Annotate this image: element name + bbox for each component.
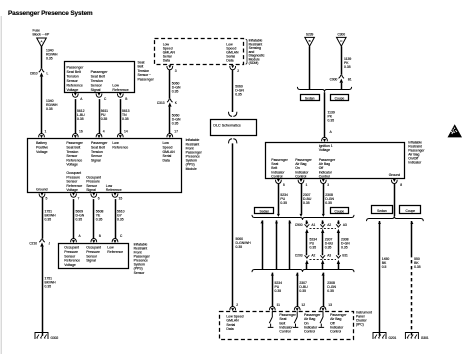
svg-text:0.35: 0.35 [101,117,108,121]
svg-text:Coupe: Coupe [335,209,345,213]
svg-text:0.35: 0.35 [77,117,84,121]
module pin 7 [71,194,77,198]
svg-text:Reference: Reference [67,84,83,88]
svg-text:0.35: 0.35 [275,289,282,293]
connector C810 pin L [39,69,44,72]
svg-text:0.35: 0.35 [45,285,52,289]
svg-text:C810: C810 [30,72,38,76]
indicator pin 1 [298,180,304,184]
inflatable restraint front passenger presence system PPS sensor box [59,244,129,269]
svg-text:A: A [40,39,42,43]
airbag warning triangle [448,124,463,137]
svg-text:0.35: 0.35 [325,201,332,205]
svg-text:0.35: 0.35 [280,201,287,205]
svg-text:Signal: Signal [91,88,101,92]
SDM right label [246,39,247,64]
svg-text:1: 1 [306,183,308,187]
svg-text:7: 7 [78,197,80,201]
svg-text:B: B [125,97,127,101]
wire 1139 PK C300 to C900 [341,46,343,74]
svg-text:Ground: Ground [389,173,401,177]
inflatable restraint sensing and diagnostic module SDM dashed box [155,39,244,65]
bracket splitting ground to sedan and coupe [367,216,424,221]
svg-text:0.35: 0.35 [414,265,421,269]
svg-text:0.35: 0.35 [235,93,242,97]
svg-text:Passenger: Passenger [91,70,109,74]
svg-text:A1: A1 [311,223,315,227]
svg-text:A3: A3 [327,254,331,258]
svg-text:Sensor: Sensor [134,271,146,275]
wire 5060 D-GN SDM pin 3 to C313 [169,70,171,99]
wire 5611 PU pin C to module pin 4 [99,99,101,133]
svg-text:Control: Control [304,330,315,334]
svg-text:13: 13 [328,303,332,307]
air bag on indicator element [293,311,299,327]
svg-text:C313: C313 [157,101,165,105]
wire 1450 BK sedan to G201 [378,221,381,224]
wire 2308 D-GN indicator to bracket [323,184,325,214]
svg-text:5: 5 [46,197,48,201]
svg-text:11: 11 [277,303,281,307]
wire 550 BK coupe to G301 [410,221,413,224]
wire 5608 YE pin 6 to sensor pin B [93,199,95,238]
wire 1751 BK/WH pin 5 to C210 [42,197,44,238]
svg-text:0.35: 0.35 [303,201,310,205]
svg-text:G201: G201 [389,336,397,340]
svg-text:Reference: Reference [112,88,128,92]
svg-text:17: 17 [174,130,178,134]
svg-text:Sedan: Sedan [305,96,315,100]
coupe option box middle [331,208,349,214]
connector C313 pin K [167,99,172,102]
svg-text:0.35: 0.35 [327,289,334,293]
svg-text:Data: Data [163,58,170,62]
svg-text:0.35: 0.35 [76,218,83,222]
svg-text:Sedan: Sedan [377,209,387,213]
sedan harness wire 2 [275,220,278,223]
svg-text:Passenger Presence System: Passenger Presence System [8,10,93,17]
svg-text:Block —I/P: Block —I/P [33,33,51,37]
svg-text:0.35: 0.35 [172,90,179,94]
inflatable restraint passenger air bag on off indicator box [266,143,405,179]
svg-text:Voltage: Voltage [36,150,48,154]
svg-text:A2: A2 [327,223,331,227]
bracket joining sedan and coupe feeds [297,87,351,92]
wire 5060 D-GN/WH DLC to IPC pin 2 [232,143,234,306]
svg-text:Tension: Tension [91,79,103,83]
wire S239 to sedan bracket [309,46,311,89]
wire 1340 RD/WH C810 to PPS module pin 1 [41,77,43,134]
svg-text:C210: C210 [29,241,37,245]
svg-text:Signal: Signal [86,259,96,263]
wire 1751 BK/WH C210 to G302 [42,247,44,336]
svg-text:Coupe: Coupe [406,209,416,213]
svg-text:Voltage: Voltage [66,163,78,167]
svg-text:G301: G301 [421,336,429,340]
svg-text:14: 14 [124,130,128,134]
svg-text:0.35: 0.35 [236,245,243,249]
bracket joining sedan and coupe harness to IPC wires [252,270,354,273]
svg-text:Ground: Ground [36,187,48,191]
svg-text:16: 16 [79,130,83,134]
svg-text:0.35: 0.35 [328,119,335,123]
svg-text:S239: S239 [306,33,314,37]
svg-text:A3: A3 [343,223,347,227]
svg-text:B1: B1 [348,77,352,81]
svg-text:2: 2 [236,303,238,307]
svg-text:(SDM): (SDM) [249,61,259,65]
indicator pin 5 [276,180,282,184]
wire ground pin 8 to bracket [394,184,396,217]
svg-text:0.35: 0.35 [325,246,332,250]
svg-text:Signal: Signal [86,188,96,192]
svg-text:Coupe: Coupe [335,96,345,100]
sedan option box right [372,206,393,214]
svg-text:Sensor: Sensor [91,84,103,88]
svg-text:(IPC): (IPC) [356,323,364,327]
sedan harness wire 3 [288,220,291,223]
svg-text:4: 4 [103,130,105,134]
svg-text:B11: B11 [342,254,348,258]
svg-text:Control: Control [271,174,282,178]
module pin 5 ground output [39,194,45,198]
svg-text:Control: Control [330,330,341,334]
svg-text:8: 8 [400,183,402,187]
svg-text:G302: G302 [51,336,59,340]
wire 5613 TN pin B to module pin 14 [120,99,122,133]
bracket splitting indicator wires to sedan and coupe harness [252,215,354,220]
coupe option box top right [331,95,349,101]
sensor pin B [117,94,123,98]
svg-text:Control: Control [319,174,330,178]
svg-text:Sensor: Sensor [67,79,79,83]
svg-text:0.35: 0.35 [122,117,129,121]
svg-text:Module: Module [186,167,197,171]
svg-text:C300: C300 [337,33,345,37]
module pin 15 [112,194,118,198]
wire 5610 GY pin 15 to sensor pin C [115,199,117,238]
svg-text:Data: Data [226,58,233,62]
svg-text:Sedan: Sedan [260,209,270,213]
svg-text:3: 3 [327,183,329,187]
continuation cup into DLC schematics [229,112,237,117]
wire 2308 D-GN to IPC pin 13 [322,273,325,276]
svg-text:12: 12 [301,303,305,307]
wire 2307 D-BU to IPC pin 12 [296,273,299,276]
ground G201 [373,333,386,340]
svg-text:Voltage: Voltage [319,148,331,152]
svg-text:Tension: Tension [67,75,79,79]
svg-text:0.35: 0.35 [344,65,351,69]
wire 5609 D-GN pin 7 to sensor pin A [73,199,75,238]
svg-text:DLC Schematics: DLC Schematics [213,123,241,127]
svg-text:Passenger: Passenger [67,66,85,70]
ground G301 [405,333,418,340]
wire 5060 D-GN SDM pin 2 to DLC [232,70,234,112]
svg-text:3: 3 [175,69,177,73]
svg-text:Seat Belt: Seat Belt [91,75,105,79]
svg-text:0.35: 0.35 [46,57,53,61]
wire 2307 D-BU indicator to bracket [301,184,303,214]
svg-text:B: B [99,234,101,238]
svg-text:0.35: 0.35 [96,218,103,222]
svg-text:B: B [309,39,311,43]
instrument panel cluster IPC dashed box [220,312,354,340]
svg-text:Control: Control [295,174,306,178]
svg-text:0.35: 0.35 [299,289,306,293]
sedan harness wire 1 [261,220,264,223]
svg-text:0.5: 0.5 [382,265,387,269]
wire 5234 PU indicator to bracket [278,184,280,214]
svg-text:0.35: 0.35 [310,246,317,250]
svg-text:Control: Control [279,330,290,334]
seat belt tension sensor - passenger box [65,62,135,93]
svg-text:Data: Data [163,158,170,162]
ground G302 [35,333,48,340]
wire 5612 L-BU pin A to module pin 16 [75,99,77,133]
svg-text:1: 1 [45,130,47,134]
wire 5234 PU to IPC pin 11 [271,273,274,276]
continuation cup below DLC schematics [229,139,237,144]
tick arrows at bracket for indicator wires [277,214,280,217]
svg-text:0.35: 0.35 [117,218,124,222]
svg-text:C900: C900 [330,77,338,81]
svg-text:0.35: 0.35 [45,218,52,222]
sensor pin A [72,94,78,98]
svg-text:Seat Belt: Seat Belt [67,70,81,74]
svg-text:C900: C900 [295,223,303,227]
page edge artifact line [0,16,2,354]
wire 5060 D-GN C313 to module pin 17 [169,107,171,134]
svg-text:Voltage: Voltage [66,188,78,192]
sedan option box middle [255,208,274,214]
coupe option box right [400,206,421,214]
inflatable restraint front passenger presence system PPS module box [28,139,182,193]
connector C210 pin J [39,239,44,242]
svg-text:0.35: 0.35 [46,107,53,111]
svg-text:Voltage: Voltage [67,88,79,92]
wire C900 to coupe bracket [341,83,343,89]
svg-text:C203: C203 [295,254,303,258]
svg-text:6: 6 [98,197,100,201]
svg-text:L: L [47,72,49,76]
svg-text:A2: A2 [311,254,315,258]
svg-text:Indicator: Indicator [408,161,422,165]
svg-text:0.35: 0.35 [341,246,348,250]
svg-text:0.35: 0.35 [172,122,179,126]
svg-text:Reference: Reference [107,250,123,254]
indicator ground pin 8 [391,180,397,184]
svg-text:5: 5 [283,183,285,187]
svg-text:Passenger: Passenger [138,77,155,81]
wire 1340 RD/WH fuse to C810 [41,47,43,69]
sensor pin C [96,94,102,98]
seat belt indicator element [268,311,274,327]
svg-text:15: 15 [119,197,123,201]
svg-text:Data: Data [226,327,233,331]
svg-text:Reference: Reference [112,146,128,150]
svg-text:Reference: Reference [106,188,122,192]
module pin 6 [91,194,97,198]
indicator pin 3 [320,180,326,184]
svg-text:Signal: Signal [91,158,101,162]
SDM pin 2 [230,66,236,70]
svg-text:Voltage: Voltage [64,263,76,267]
connector C900 pin B1 [339,75,344,78]
air bag off indicator element [319,311,325,327]
svg-text:Low: Low [112,84,119,88]
sedan option box top right [301,95,320,101]
SDM pin 3 [167,66,173,70]
svg-text:2: 2 [237,69,239,73]
DLC schematics box [211,120,257,136]
wire 1139 PK bracket to indicator pin A [324,92,326,137]
